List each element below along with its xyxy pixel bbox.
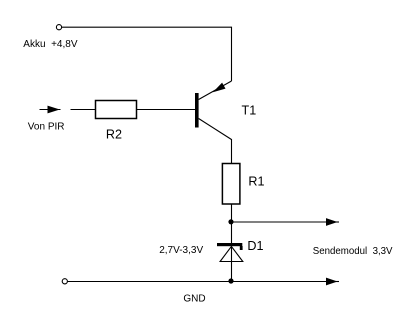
svg-text:2,7V-3,3V: 2,7V-3,3V [159,245,203,256]
label net "GND" [183,294,205,305]
label net "Von PIR" [28,122,65,133]
resistor R2 [96,101,137,119]
resistor R1 [222,164,240,205]
label net "Akku +4,8V" [23,39,78,50]
terminal: GND pin [62,279,67,284]
svg-text:R2: R2 [106,128,122,142]
wire: GND rail to arrow [68,278,339,286]
svg-text:Von PIR: Von PIR [28,122,65,133]
wire: Von PIR to R2 [71,109,96,111]
arrow: Von PIR input [40,106,61,114]
label value "2,7V-3,3V" [159,245,203,256]
wire: collector drop to R1 [231,139,233,164]
zener diode D1 [217,243,243,262]
wire: rail drop to T1 emitter [231,27,233,81]
label net "Sendemodul 3,3V" [313,246,393,257]
junction node: GND [228,278,233,283]
svg-text:GND: GND [183,294,205,305]
svg-text:Akku +4,8V: Akku +4,8V [23,39,78,50]
wire: R1 to output node [231,204,233,244]
transistor T1 (PNP) [195,81,232,140]
wire: node to Sendemodul arrow [232,218,340,226]
terminal: Akku supply pin [56,25,61,30]
wire: +4.8V rail horizontal [62,26,232,28]
svg-text:T1: T1 [242,104,257,118]
label R1 [248,175,264,189]
svg-text:R1: R1 [248,175,264,189]
junction node: output [228,219,233,224]
label D1 [247,239,263,253]
wire: R2 to T1 base [137,109,196,111]
wire: D1 anode to GND rail [231,247,233,282]
label R2 [106,128,122,142]
label T1 [242,104,257,118]
svg-text:D1: D1 [247,239,263,253]
svg-text:Sendemodul 3,3V: Sendemodul 3,3V [313,246,393,257]
